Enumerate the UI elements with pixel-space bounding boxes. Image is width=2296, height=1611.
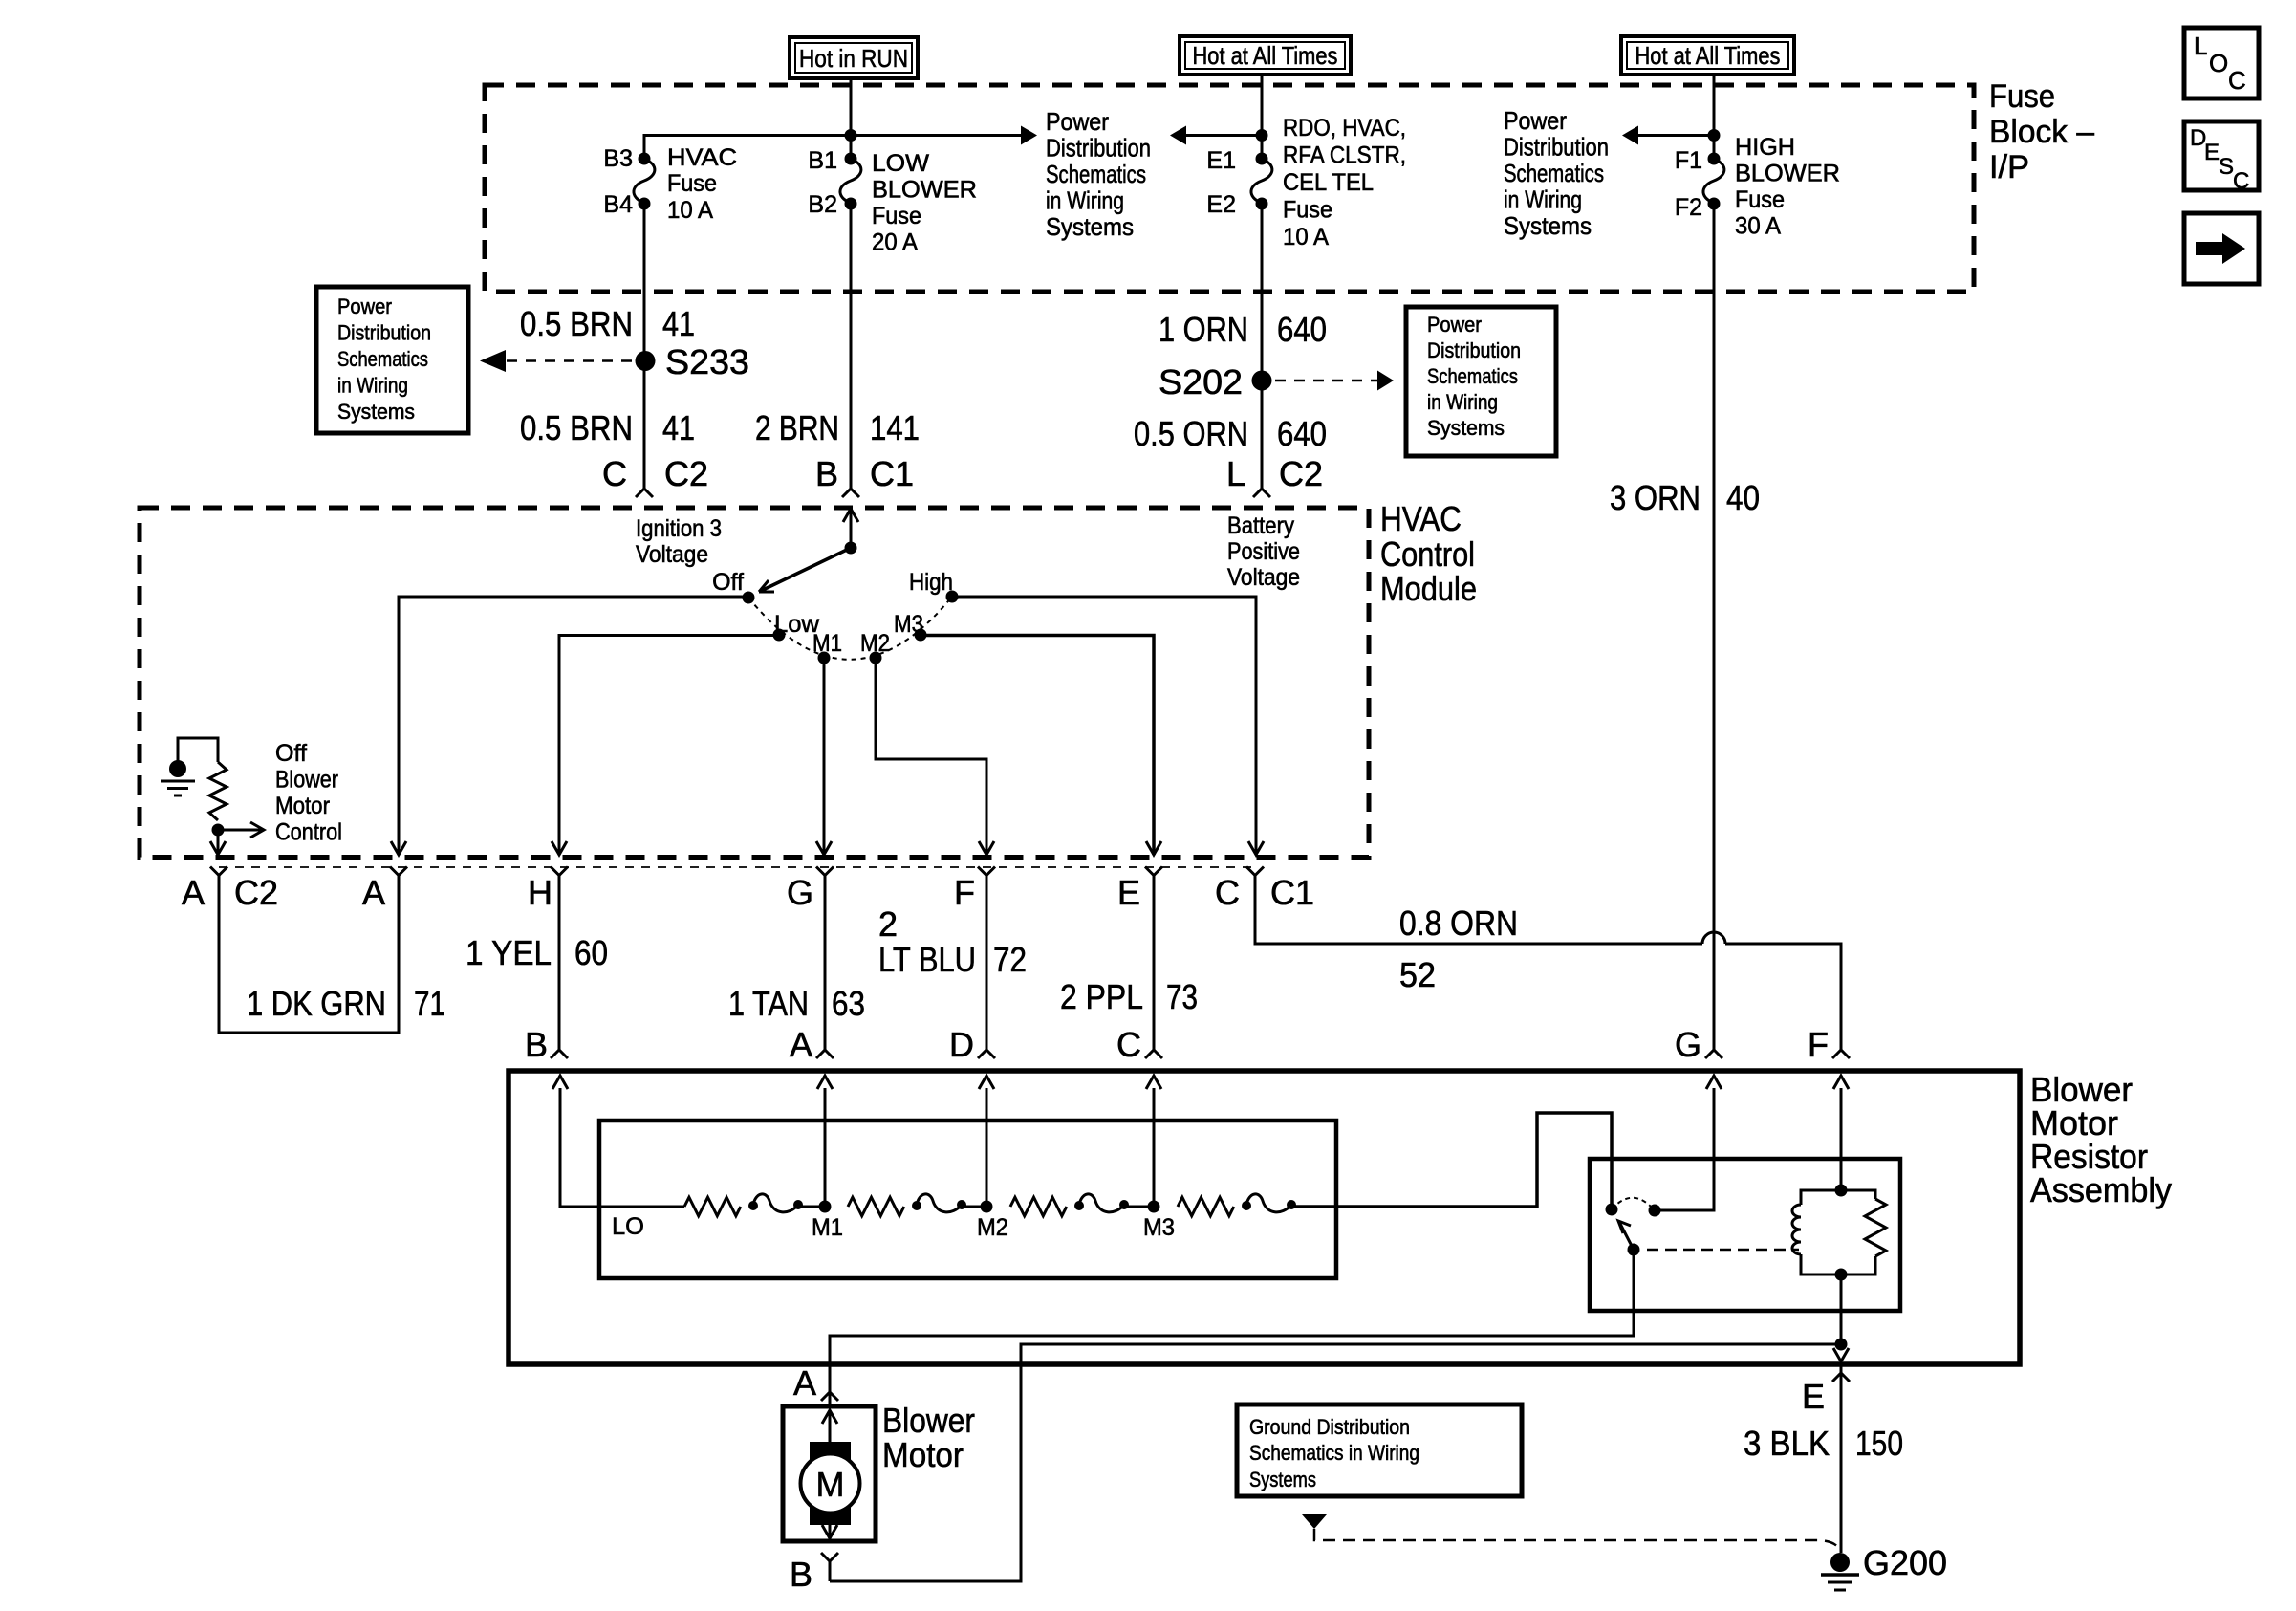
label Ignition 3 Voltage xyxy=(636,515,722,568)
arrow off blower motor control xyxy=(218,829,264,832)
label 0.8 ORN 52 xyxy=(1399,903,1518,994)
ground (off blower motor control) xyxy=(161,760,195,795)
connector fork pin D resistor assembly xyxy=(978,1050,995,1058)
wire coil to E junction xyxy=(1840,1274,1843,1344)
svg-text:L: L xyxy=(1226,454,1245,493)
wire motor B return path xyxy=(831,1344,1841,1581)
switch contact M1 xyxy=(818,652,831,664)
svg-text:F2: F2 xyxy=(1675,194,1702,221)
svg-text:M2: M2 xyxy=(860,630,890,657)
wire B2 to connector B/C1 xyxy=(850,204,853,489)
wire Off to pin A xyxy=(399,597,748,855)
fuse E1/E2 RDO HVAC Fuse 10 A xyxy=(1256,153,1268,165)
svg-text:41: 41 xyxy=(662,408,695,447)
junction M2 xyxy=(981,1201,993,1213)
svg-text:Schematics in Wiring: Schematics in Wiring xyxy=(1249,1441,1419,1465)
switch contact Low xyxy=(773,629,786,642)
svg-text:52: 52 xyxy=(1399,955,1436,994)
svg-text:Ground Distribution: Ground Distribution xyxy=(1249,1415,1410,1439)
switch contact Off xyxy=(743,592,755,604)
svg-text:C: C xyxy=(602,454,627,493)
wire pin B to resistor chain xyxy=(560,1088,684,1207)
svg-text:71: 71 xyxy=(414,984,445,1023)
arrow into resistor assembly pin G xyxy=(1706,1076,1722,1089)
arrow into module at B/C1 xyxy=(843,509,858,522)
svg-text:in Wiring: in Wiring xyxy=(1046,186,1124,215)
label 3 BLK 150 xyxy=(1744,1424,1903,1463)
svg-text:M3: M3 xyxy=(1143,1214,1175,1241)
label Fuse Block I/P xyxy=(1989,78,2094,185)
relay switch arm xyxy=(1619,1222,1634,1250)
svg-text:E: E xyxy=(2204,140,2220,165)
svg-text:Battery: Battery xyxy=(1227,512,1294,539)
power distribution schematics box (left) xyxy=(316,287,468,433)
svg-text:Systems: Systems xyxy=(337,400,415,424)
junction off control xyxy=(212,824,225,837)
svg-text:63: 63 xyxy=(832,984,865,1023)
junction E xyxy=(1835,1339,1848,1351)
svg-text:Control: Control xyxy=(1380,534,1475,574)
wire pin G to relay xyxy=(1655,1088,1714,1210)
svg-text:640: 640 xyxy=(1277,310,1327,349)
wire High to pin C xyxy=(952,597,1256,855)
splice S233 xyxy=(636,351,656,371)
svg-text:A: A xyxy=(790,1025,812,1064)
junction F rail xyxy=(1708,129,1721,142)
svg-text:in Wiring: in Wiring xyxy=(1427,390,1498,414)
svg-text:M2: M2 xyxy=(977,1214,1008,1241)
switch contact M2 xyxy=(870,652,882,664)
svg-text:Block –: Block – xyxy=(1989,114,2094,150)
svg-text:1 YEL: 1 YEL xyxy=(466,933,552,972)
svg-text:30 A: 30 A xyxy=(1735,213,1781,240)
svg-text:C2: C2 xyxy=(1279,454,1323,493)
wire M2 to pin F xyxy=(876,658,986,855)
resistor off blower motor control xyxy=(209,762,227,820)
resistor M3-HI xyxy=(1178,1197,1234,1216)
svg-text:C: C xyxy=(2228,66,2246,95)
svg-text:D: D xyxy=(949,1025,974,1064)
arrow into resistor assembly pin D xyxy=(979,1076,994,1089)
svg-text:HVAC: HVAC xyxy=(1380,499,1462,538)
label LOW BLOWER Fuse 20 A xyxy=(872,150,977,256)
svg-text:Schematics: Schematics xyxy=(1046,160,1146,188)
wire pin F to relay coil xyxy=(1840,1088,1843,1190)
dashed arrow S202 to power distribution box xyxy=(1275,380,1377,382)
label Power Distribution Schematics (center) xyxy=(1046,107,1151,241)
svg-text:Ignition 3: Ignition 3 xyxy=(636,515,722,542)
svg-text:41: 41 xyxy=(662,304,695,343)
wire chain to relay common xyxy=(1290,1113,1612,1209)
junction relay common xyxy=(1606,1204,1618,1216)
relay coil / resistor pair xyxy=(1835,1185,1848,1197)
wire motor B down xyxy=(829,1561,832,1581)
node Hot in RUN xyxy=(790,37,918,78)
svg-text:G: G xyxy=(787,873,813,912)
fuse block I/P dashed box xyxy=(485,85,1974,292)
svg-text:S202: S202 xyxy=(1159,362,1243,402)
svg-text:2 BRN: 2 BRN xyxy=(755,408,839,447)
svg-text:B1: B1 xyxy=(808,147,837,174)
svg-text:Off: Off xyxy=(275,740,307,767)
label HIGH BLOWER Fuse 30 A xyxy=(1735,134,1840,240)
svg-text:Power: Power xyxy=(1046,107,1109,136)
svg-text:Hot at All Times: Hot at All Times xyxy=(1635,41,1781,70)
wire 1 YEL 60 xyxy=(558,876,561,1051)
svg-text:C: C xyxy=(2233,168,2249,194)
svg-text:Assembly: Assembly xyxy=(2030,1170,2172,1209)
pin C / C1 xyxy=(1215,873,1314,912)
junction switch pivot xyxy=(845,542,857,555)
power distribution schematics box (right) xyxy=(1406,307,1556,456)
svg-text:E: E xyxy=(1117,873,1140,912)
svg-text:73: 73 xyxy=(1166,977,1198,1016)
label Battery Positive Voltage xyxy=(1227,512,1300,591)
arrow to Power Distribution (right) xyxy=(1021,126,1037,145)
junction M1 xyxy=(819,1201,832,1213)
svg-text:Blower: Blower xyxy=(882,1401,975,1440)
svg-text:LOW: LOW xyxy=(872,150,929,177)
svg-text:20 A: 20 A xyxy=(872,229,918,256)
svg-text:Power: Power xyxy=(1504,106,1567,135)
svg-text:E: E xyxy=(1802,1377,1825,1416)
svg-text:C1: C1 xyxy=(870,454,914,493)
svg-text:E1: E1 xyxy=(1206,147,1236,174)
svg-text:F: F xyxy=(954,873,975,912)
wire 1 DK GRN 71 loop xyxy=(219,876,399,1034)
svg-text:Systems: Systems xyxy=(1249,1468,1316,1491)
svg-text:B: B xyxy=(790,1555,812,1594)
svg-text:in Wiring: in Wiring xyxy=(337,374,408,398)
resistor M2-M3 xyxy=(1010,1197,1067,1216)
wire switch feed xyxy=(850,509,853,548)
icon arrow xyxy=(2184,213,2259,284)
svg-text:Hot in RUN: Hot in RUN xyxy=(799,44,908,73)
svg-text:Systems: Systems xyxy=(1504,211,1592,240)
svg-text:C: C xyxy=(1116,1025,1141,1064)
svg-text:CEL TEL: CEL TEL xyxy=(1283,169,1374,196)
wire pin D to chain xyxy=(986,1088,988,1207)
svg-text:3 BLK: 3 BLK xyxy=(1744,1424,1830,1463)
arrow into resistor assembly pin F xyxy=(1833,1076,1849,1089)
svg-text:M: M xyxy=(816,1465,845,1504)
svg-text:10 A: 10 A xyxy=(1283,224,1329,250)
ground G200 xyxy=(1821,1553,1859,1590)
svg-text:Schematics: Schematics xyxy=(1504,159,1604,187)
svg-text:1 DK GRN: 1 DK GRN xyxy=(247,984,386,1023)
svg-text:C2: C2 xyxy=(234,873,278,912)
svg-text:1 ORN: 1 ORN xyxy=(1159,310,1248,349)
svg-text:2: 2 xyxy=(878,904,898,944)
svg-text:141: 141 xyxy=(870,408,920,447)
wire off control to pin A/C2 xyxy=(217,830,220,855)
svg-text:HVAC: HVAC xyxy=(667,144,737,171)
wire relay arm to pin A path xyxy=(830,1250,1634,1406)
svg-text:C2: C2 xyxy=(664,454,708,493)
svg-text:B4: B4 xyxy=(603,191,633,218)
label Blower Motor Resistor Assembly xyxy=(2030,1070,2172,1209)
wire Hot at All Times E feed xyxy=(1261,75,1264,159)
label 0.5 BRN 41 (upper) xyxy=(520,304,695,343)
pin B / C1 module top xyxy=(815,454,914,493)
svg-text:G200: G200 xyxy=(1863,1543,1947,1582)
svg-text:2 PPL: 2 PPL xyxy=(1060,977,1143,1016)
label HVAC Fuse 10 A xyxy=(667,144,737,224)
svg-text:1 TAN: 1 TAN xyxy=(728,984,809,1023)
wire Hot at All Times F feed xyxy=(1713,75,1716,159)
switch contact M3 xyxy=(915,629,927,642)
svg-text:Fuse: Fuse xyxy=(667,170,717,197)
wire pin A to chain xyxy=(824,1088,827,1207)
label RDO HVAC RFA CLSTR CEL TEL Fuse 10 A xyxy=(1283,115,1406,250)
svg-text:S: S xyxy=(2219,154,2234,180)
connector fork pin F resistor assembly xyxy=(1832,1050,1850,1058)
junction M3 xyxy=(1148,1201,1160,1213)
label 0.5 ORN 640 xyxy=(1134,414,1327,453)
svg-text:C: C xyxy=(1215,873,1240,912)
svg-text:Systems: Systems xyxy=(1427,416,1505,440)
dashed arrow S233 to power distribution box xyxy=(507,359,635,362)
svg-text:M1: M1 xyxy=(812,1214,843,1241)
wire Low to pin H xyxy=(559,636,779,856)
wire 0.8 ORN 52 C1 to resistor F xyxy=(1255,876,1702,945)
svg-text:G: G xyxy=(1675,1025,1701,1064)
svg-text:BLOWER: BLOWER xyxy=(1735,161,1840,187)
fuse B1/B2 LOW BLOWER Fuse 20 A xyxy=(845,153,857,165)
wire Hot in RUN feed xyxy=(850,78,853,136)
wire 2 LT BLU 72 xyxy=(986,876,988,1051)
svg-text:60: 60 xyxy=(574,933,608,972)
wire fuse block rail to B3 xyxy=(644,136,1021,160)
ground distribution box xyxy=(1237,1404,1522,1496)
svg-text:I/P: I/P xyxy=(1989,149,2029,185)
svg-text:Distribution: Distribution xyxy=(1046,134,1151,163)
label 3 ORN 40 xyxy=(1610,478,1760,517)
svg-text:Motor: Motor xyxy=(882,1435,964,1474)
svg-text:F: F xyxy=(1808,1025,1829,1064)
pin C / C2 module top xyxy=(602,454,708,493)
svg-text:B2: B2 xyxy=(808,191,837,218)
svg-text:Hot at All Times: Hot at All Times xyxy=(1193,41,1338,70)
svg-text:Distribution: Distribution xyxy=(337,321,431,345)
blower motor box xyxy=(783,1406,876,1541)
svg-text:O: O xyxy=(2209,49,2228,77)
svg-text:Fuse: Fuse xyxy=(1283,197,1332,224)
pin A / C2 xyxy=(182,873,278,912)
label 0.5 BRN 41 (lower) xyxy=(520,408,695,447)
svg-text:Voltage: Voltage xyxy=(1227,564,1300,591)
svg-text:A: A xyxy=(793,1363,816,1403)
junction E rail xyxy=(1256,129,1268,142)
svg-text:0.8 ORN: 0.8 ORN xyxy=(1399,903,1518,943)
dashed wire to G200 xyxy=(1314,1529,1841,1552)
svg-text:B: B xyxy=(815,454,838,493)
icon LOC xyxy=(2184,28,2259,98)
svg-text:S233: S233 xyxy=(665,342,749,381)
arrow into resistor assembly pin A xyxy=(817,1076,833,1089)
svg-text:B3: B3 xyxy=(603,145,633,172)
label HVAC Control Module xyxy=(1380,499,1477,608)
svg-text:Off: Off xyxy=(712,569,744,596)
wire 3 ORN 40 F2 to resistor G xyxy=(1713,204,1716,1050)
svg-text:M3: M3 xyxy=(894,611,923,638)
wire M3 to pin E xyxy=(921,636,1154,856)
svg-text:Distribution: Distribution xyxy=(1427,338,1521,362)
svg-text:Fuse: Fuse xyxy=(872,203,921,229)
svg-text:High: High xyxy=(909,569,953,596)
resistor LO-M1 xyxy=(684,1197,741,1216)
label 2 LT BLU 72 xyxy=(878,904,1027,979)
label Power Distribution Schematics (right) xyxy=(1504,106,1609,240)
label 2 BRN 141 xyxy=(755,408,920,447)
svg-text:LT BLU: LT BLU xyxy=(878,940,976,979)
wire B1 stub xyxy=(850,136,853,160)
svg-text:Power: Power xyxy=(337,294,392,318)
svg-text:Schematics: Schematics xyxy=(337,347,428,371)
motor armature xyxy=(822,1410,837,1424)
wire E2 to connector L/C2 xyxy=(1261,204,1264,489)
fuse B3/B4 HVAC Fuse 10 A xyxy=(639,153,651,165)
label 1 YEL 60 xyxy=(466,933,608,972)
connector fork pin C resistor assembly xyxy=(1145,1050,1162,1058)
pin L / C2 module top xyxy=(1226,454,1323,493)
svg-text:0.5 BRN: 0.5 BRN xyxy=(520,304,633,343)
svg-text:F1: F1 xyxy=(1675,147,1702,174)
svg-text:L: L xyxy=(2194,32,2207,60)
svg-text:0.5 BRN: 0.5 BRN xyxy=(520,408,633,447)
icon DESC xyxy=(2184,121,2259,194)
wire ground to resistor xyxy=(178,738,218,769)
svg-text:RFA CLSTR,: RFA CLSTR, xyxy=(1283,142,1406,169)
label Off Blower Motor Control xyxy=(275,740,342,846)
svg-text:E2: E2 xyxy=(1206,191,1236,218)
svg-text:B: B xyxy=(525,1025,548,1064)
svg-text:A: A xyxy=(362,873,385,912)
relay dashed actuator link xyxy=(1647,1249,1799,1252)
label 1 ORN 640 xyxy=(1159,310,1327,349)
junction rail/B1 xyxy=(845,129,857,142)
resistor chain inner box xyxy=(599,1121,1336,1278)
junction relay arm xyxy=(1628,1244,1640,1256)
label Blower Motor xyxy=(882,1401,975,1474)
svg-text:H: H xyxy=(528,873,552,912)
arrow from E1 rail (left) xyxy=(1186,134,1262,137)
connector fork pin B resistor assembly xyxy=(551,1050,568,1058)
wire pin E to G200 xyxy=(1840,1361,1843,1553)
svg-text:Motor: Motor xyxy=(275,793,330,819)
label 2 PPL 73 xyxy=(1060,977,1198,1016)
switch wiper arm xyxy=(762,548,851,591)
svg-text:Distribution: Distribution xyxy=(1504,133,1609,162)
svg-text:LO: LO xyxy=(612,1213,644,1240)
svg-text:40: 40 xyxy=(1726,478,1760,517)
svg-text:0.5 ORN: 0.5 ORN xyxy=(1134,414,1248,453)
arrow from F1 rail (left) xyxy=(1638,134,1714,137)
svg-text:Module: Module xyxy=(1380,569,1477,608)
wire B4 to connector C/C2 xyxy=(643,204,646,489)
wire 2 PPL 73 xyxy=(1153,876,1156,1051)
svg-text:3 ORN: 3 ORN xyxy=(1610,478,1700,517)
svg-text:Fuse: Fuse xyxy=(1989,78,2055,115)
connector fork pin A resistor assembly xyxy=(816,1050,834,1058)
arrow into resistor assembly pin C xyxy=(1146,1076,1161,1089)
svg-text:in Wiring: in Wiring xyxy=(1504,185,1582,214)
svg-text:Systems: Systems xyxy=(1046,212,1134,241)
svg-text:Fuse: Fuse xyxy=(1735,186,1785,213)
svg-text:Positive: Positive xyxy=(1227,538,1300,565)
svg-text:A: A xyxy=(182,873,205,912)
svg-text:Power: Power xyxy=(1427,313,1482,337)
arrow into resistor assembly pin B xyxy=(552,1076,568,1089)
node Hot at All Times (F) xyxy=(1621,36,1794,75)
svg-text:640: 640 xyxy=(1277,414,1327,453)
switch contact High xyxy=(946,591,959,603)
relay NC contact xyxy=(1649,1205,1661,1217)
svg-text:BLOWER: BLOWER xyxy=(872,177,977,204)
ground reference arrow xyxy=(1302,1514,1327,1529)
resistor M1-M2 xyxy=(848,1197,904,1216)
label 1 DK GRN 71 xyxy=(247,984,445,1023)
svg-text:Blower: Blower xyxy=(275,767,338,794)
fuse F1/F2 HIGH BLOWER Fuse 30 A xyxy=(1708,153,1721,165)
splice S202 xyxy=(1252,371,1272,391)
svg-text:Schematics: Schematics xyxy=(1427,364,1518,388)
svg-text:Control: Control xyxy=(275,819,342,846)
svg-text:Voltage: Voltage xyxy=(636,541,708,568)
wire M1 to pin G xyxy=(823,658,826,855)
svg-text:RDO, HVAC,: RDO, HVAC, xyxy=(1283,115,1406,142)
svg-text:72: 72 xyxy=(993,940,1027,979)
svg-text:150: 150 xyxy=(1855,1424,1903,1463)
label 1 TAN 63 xyxy=(728,984,865,1023)
wire 1 TAN 63 xyxy=(824,876,827,1051)
svg-text:10 A: 10 A xyxy=(667,197,713,224)
connector fork pin G resistor assembly xyxy=(1705,1050,1722,1058)
wire pin C to chain xyxy=(1153,1088,1156,1207)
svg-text:HIGH: HIGH xyxy=(1735,134,1795,161)
relay dashed throw arc xyxy=(1612,1198,1655,1210)
connector C1 thin dashed line xyxy=(219,866,1255,868)
svg-text:M1: M1 xyxy=(812,630,842,657)
HVAC control module dashed box xyxy=(140,508,1369,858)
svg-text:C1: C1 xyxy=(1270,873,1314,912)
blower motor resistor assembly box xyxy=(509,1071,2020,1364)
relay box xyxy=(1590,1159,1900,1311)
node Hot at All Times (E) xyxy=(1180,36,1351,75)
switch dashed travel arc xyxy=(748,597,952,660)
